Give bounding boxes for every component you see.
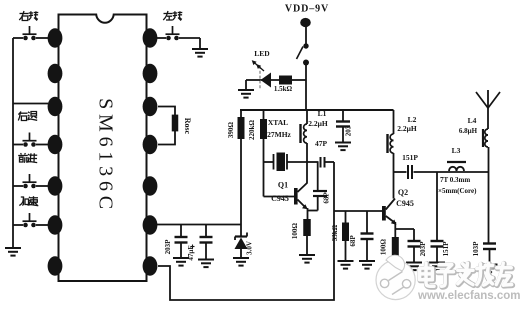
svg-text:1.5kΩ: 1.5kΩ (274, 85, 293, 93)
svg-text:2.2μH: 2.2μH (308, 119, 328, 128)
svg-text:6.8μH: 6.8μH (459, 127, 478, 135)
svg-text:L1: L1 (318, 109, 327, 118)
svg-text:SM6136C: SM6136C (95, 98, 117, 214)
svg-text:68P: 68P (323, 192, 331, 204)
svg-text:27MHz: 27MHz (267, 130, 291, 139)
svg-text:XTAL: XTAL (268, 118, 288, 127)
svg-text:L4: L4 (468, 116, 477, 125)
svg-text:L2: L2 (408, 115, 417, 124)
svg-text:7T 0.3mm: 7T 0.3mm (440, 176, 470, 184)
svg-text:203: 203 (345, 125, 353, 136)
svg-text:47P: 47P (315, 139, 328, 148)
svg-text:L3: L3 (452, 146, 461, 155)
svg-text:C945: C945 (271, 194, 289, 203)
svg-text:103P: 103P (472, 241, 480, 257)
svg-text:390Ω: 390Ω (227, 122, 235, 139)
svg-text:LED: LED (254, 49, 270, 58)
svg-text:×5mm(Core): ×5mm(Core) (438, 187, 477, 195)
svg-text:Q2: Q2 (398, 188, 408, 197)
svg-text:47μF: 47μF (187, 245, 195, 260)
svg-text:2.2μH: 2.2μH (397, 124, 417, 133)
svg-text:VDD–9V: VDD–9V (285, 4, 329, 15)
svg-text:C945: C945 (396, 199, 414, 208)
svg-text:Rosc: Rosc (183, 118, 192, 135)
svg-text:220kΩ: 220kΩ (248, 120, 256, 140)
svg-text:203P: 203P (164, 239, 172, 255)
svg-text:Q1: Q1 (278, 181, 288, 190)
svg-text:151P: 151P (402, 153, 418, 162)
svg-text:100Ω: 100Ω (291, 223, 299, 240)
svg-text:www.elecfans.com: www.elecfans.com (417, 290, 520, 302)
svg-text:33kΩ: 33kΩ (331, 224, 339, 241)
svg-text:151P: 151P (442, 241, 450, 257)
svg-text:203P: 203P (419, 241, 427, 257)
svg-text:68P: 68P (349, 235, 357, 247)
svg-text:100Ω: 100Ω (380, 239, 388, 256)
svg-text:3.0V: 3.0V (246, 241, 254, 255)
